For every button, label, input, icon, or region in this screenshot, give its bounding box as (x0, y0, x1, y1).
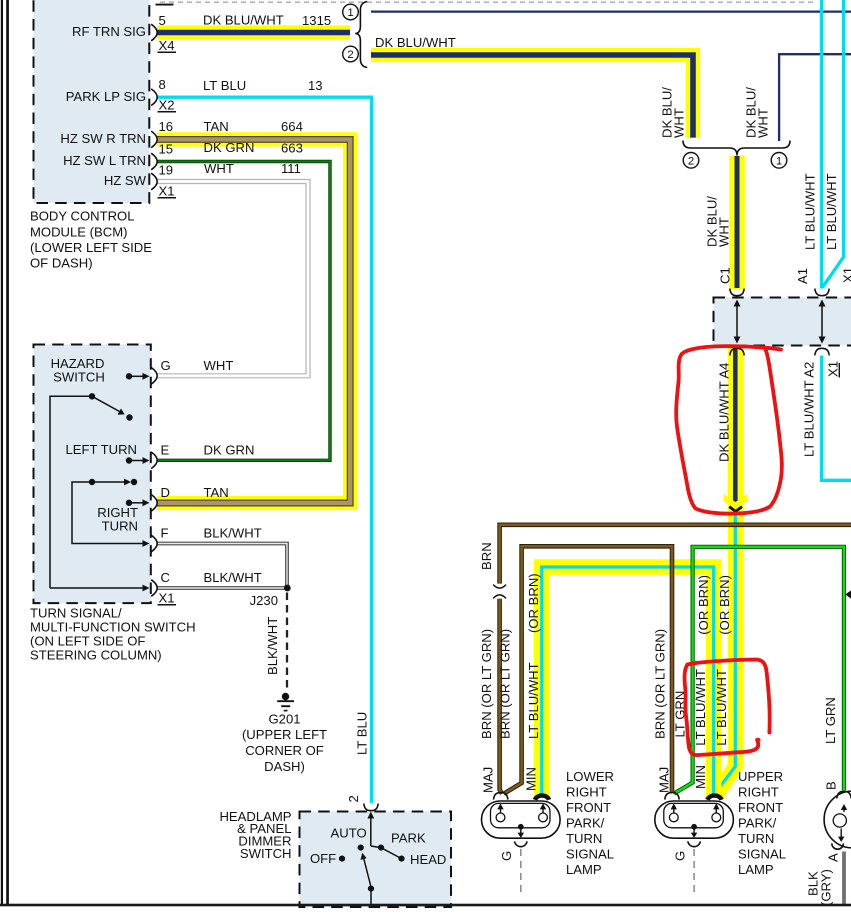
svg-text:MIN: MIN (693, 765, 708, 789)
svg-text:J230: J230 (250, 593, 278, 608)
svg-text:CORNER OF: CORNER OF (245, 743, 324, 758)
svg-text:LOWER: LOWER (566, 769, 614, 784)
svg-text:A1: A1 (795, 268, 810, 284)
svg-text:8: 8 (159, 77, 166, 92)
svg-text:MULTI-FUNCTION SWITCH: MULTI-FUNCTION SWITCH (30, 620, 196, 635)
svg-text:1315: 1315 (302, 13, 331, 28)
svg-text:DASH): DASH) (264, 759, 305, 774)
svg-text:WHT: WHT (204, 161, 234, 176)
svg-text:5: 5 (159, 13, 166, 28)
svg-text:LT BLU: LT BLU (203, 78, 246, 93)
svg-text:(GRY): (GRY) (819, 869, 834, 906)
svg-text:D: D (161, 485, 170, 500)
svg-text:OFF: OFF (310, 851, 336, 866)
svg-text:E: E (161, 442, 170, 457)
svg-text:SWITCH: SWITCH (240, 846, 292, 861)
svg-text:RIGHT: RIGHT (738, 785, 779, 800)
svg-text:FRONT: FRONT (566, 800, 611, 815)
svg-text:DK BLU/WHT A4: DK BLU/WHT A4 (716, 363, 731, 462)
svg-text:WHT: WHT (204, 358, 234, 373)
svg-text:1: 1 (347, 7, 353, 19)
svg-text:LT GRN: LT GRN (823, 697, 838, 744)
svg-text:(OR BRN): (OR BRN) (696, 575, 711, 635)
svg-text:13: 13 (308, 78, 323, 93)
svg-text:2: 2 (347, 49, 353, 61)
svg-text:111: 111 (281, 161, 301, 176)
svg-text:DK BLU/WHT: DK BLU/WHT (375, 35, 456, 50)
svg-text:LAMP: LAMP (738, 862, 774, 877)
svg-text:STEERING COLUMN): STEERING COLUMN) (30, 648, 162, 663)
svg-text:FRONT: FRONT (738, 800, 783, 815)
svg-text:(LOWER LEFT SIDE: (LOWER LEFT SIDE (30, 240, 152, 255)
svg-text:LT BLU/WHT: LT BLU/WHT (824, 173, 839, 250)
svg-text:LT BLU/WHT: LT BLU/WHT (714, 669, 729, 746)
svg-text:BRN (OR LT GRN): BRN (OR LT GRN) (479, 629, 494, 739)
svg-text:PARK/: PARK/ (566, 816, 605, 831)
svg-text:2: 2 (346, 795, 361, 802)
svg-text:MODULE (BCM): MODULE (BCM) (30, 224, 127, 239)
svg-text:G: G (499, 851, 514, 861)
svg-text:LT BLU/WHT: LT BLU/WHT (526, 662, 541, 739)
svg-text:MAJ: MAJ (657, 767, 672, 793)
svg-text:TAN: TAN (204, 485, 229, 500)
svg-text:BLK/WHT: BLK/WHT (265, 617, 280, 675)
svg-text:UPPER: UPPER (738, 769, 783, 784)
svg-text:OF DASH): OF DASH) (30, 256, 93, 271)
svg-text:1: 1 (776, 156, 782, 168)
svg-text:(OR BRN): (OR BRN) (526, 573, 541, 633)
svg-text:DK GRN: DK GRN (204, 442, 255, 457)
svg-text:G201: G201 (268, 711, 300, 726)
svg-text:15: 15 (159, 142, 174, 157)
svg-text:PARK: PARK (391, 831, 426, 846)
svg-text:2: 2 (688, 156, 694, 168)
svg-text:WHT: WHT (717, 217, 732, 247)
svg-text:HZ SW L TRN: HZ SW L TRN (63, 153, 146, 168)
svg-text:DK GRN: DK GRN (204, 140, 255, 155)
svg-text:PARK LP SIG: PARK LP SIG (66, 89, 146, 104)
svg-text:G: G (161, 358, 171, 373)
svg-text:X1: X1 (825, 361, 840, 377)
svg-text:16: 16 (159, 119, 174, 134)
svg-text:G: G (673, 851, 688, 861)
svg-text:MAJ: MAJ (481, 767, 496, 793)
svg-text:SIGNAL: SIGNAL (738, 847, 786, 862)
svg-text:WHT: WHT (672, 108, 687, 138)
svg-text:BRN (OR LT GRN): BRN (OR LT GRN) (498, 629, 513, 739)
svg-text:X4: X4 (159, 38, 175, 53)
svg-text:TAN: TAN (204, 119, 229, 134)
svg-text:RIGHT: RIGHT (566, 785, 607, 800)
svg-text:MIN: MIN (524, 767, 539, 791)
svg-text:BRN: BRN (479, 542, 494, 570)
svg-text:SIGNAL: SIGNAL (566, 847, 614, 862)
svg-text:LT BLU: LT BLU (355, 712, 370, 755)
svg-text:SWITCH: SWITCH (53, 370, 105, 385)
svg-text:(ON LEFT SIDE OF: (ON LEFT SIDE OF (30, 634, 145, 649)
svg-text:C: C (161, 570, 170, 585)
svg-text:C1: C1 (718, 267, 733, 284)
svg-text:LAMP: LAMP (566, 862, 602, 877)
svg-text:TURN: TURN (566, 831, 602, 846)
svg-text:HZ SW R TRN: HZ SW R TRN (60, 131, 146, 146)
svg-text:A: A (825, 853, 840, 862)
svg-text:BLK/WHT: BLK/WHT (204, 526, 262, 541)
svg-text:LT BLU/WHT A2: LT BLU/WHT A2 (802, 362, 817, 457)
svg-text:LEFT TURN: LEFT TURN (65, 442, 137, 457)
svg-text:BODY CONTROL: BODY CONTROL (30, 209, 135, 224)
svg-text:HEAD: HEAD (410, 852, 446, 867)
svg-text:HZ SW: HZ SW (104, 173, 147, 188)
svg-text:AUTO: AUTO (331, 826, 367, 841)
svg-text:663: 663 (281, 141, 303, 156)
svg-text:X2: X2 (159, 98, 175, 113)
svg-text:664: 664 (281, 119, 303, 134)
svg-text:DK BLU/WHT: DK BLU/WHT (203, 13, 284, 28)
svg-text:X1: X1 (159, 184, 175, 199)
svg-text:PARK/: PARK/ (738, 816, 777, 831)
svg-text:TURN SIGNAL/: TURN SIGNAL/ (30, 606, 122, 621)
svg-text:(UPPER LEFT: (UPPER LEFT (242, 727, 327, 742)
svg-text:LT BLU/WHT: LT BLU/WHT (693, 669, 708, 746)
svg-text:WHT: WHT (756, 108, 771, 138)
svg-text:X1: X1 (159, 590, 175, 605)
svg-text:B: B (824, 781, 839, 790)
svg-text:BRN (OR LT GRN): BRN (OR LT GRN) (653, 629, 668, 739)
svg-text:LT BLU/WHT: LT BLU/WHT (803, 173, 818, 250)
svg-text:F: F (161, 526, 169, 541)
svg-text:19: 19 (159, 163, 174, 178)
svg-text:X1: X1 (841, 267, 851, 283)
svg-text:RF TRN SIG: RF TRN SIG (72, 24, 146, 39)
svg-text:TURN: TURN (102, 519, 138, 534)
svg-text:TURN: TURN (738, 831, 774, 846)
svg-text:BLK/WHT: BLK/WHT (204, 570, 262, 585)
svg-text:(OR BRN): (OR BRN) (717, 575, 732, 635)
